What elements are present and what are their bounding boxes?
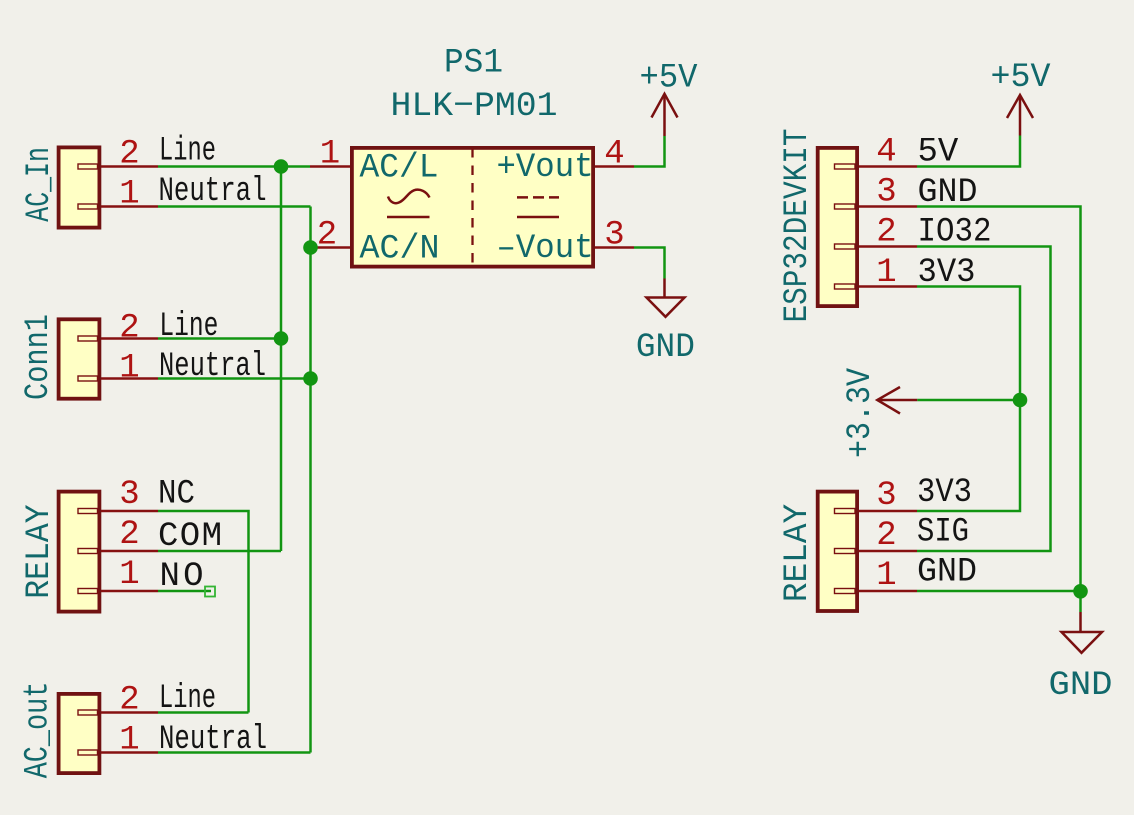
svg-text:PS1: PS1	[444, 45, 503, 83]
wire PS1 -Vout to GND	[634, 248, 665, 279]
AC_out pin 2	[101, 682, 158, 720]
svg-text:4: 4	[876, 134, 896, 172]
svg-text:Line: Line	[159, 308, 218, 346]
junction Conn1 line	[274, 331, 289, 346]
svg-text:NC: NC	[158, 476, 195, 514]
wire AC_In line to PS1	[158, 165, 310, 168]
svg-text:1: 1	[119, 556, 139, 594]
power symbol +5V (right)	[991, 59, 1052, 136]
svg-text:1: 1	[876, 254, 896, 292]
power supply module PS1 body	[352, 148, 593, 267]
svg-text:2: 2	[119, 136, 139, 174]
ESP32 pin 4	[859, 134, 917, 172]
connector Conn1 body	[59, 319, 100, 398]
svg-text:AC_In: AC_In	[21, 147, 59, 222]
svg-text:AC/N: AC/N	[360, 231, 440, 269]
Conn1 pin 2	[101, 310, 158, 348]
svg-text:GND: GND	[917, 554, 977, 592]
RELAY right pin 1	[859, 557, 917, 595]
svg-text:2: 2	[317, 217, 337, 255]
svg-text:HLK−PM01: HLK−PM01	[391, 88, 558, 126]
RELAY pin 2	[101, 516, 158, 554]
svg-text:+5V: +5V	[640, 60, 699, 98]
svg-text:1: 1	[119, 350, 139, 388]
AC_out pin 1	[101, 722, 158, 760]
svg-text:Neutral: Neutral	[159, 348, 266, 386]
svg-text:Line: Line	[159, 133, 216, 171]
wire Conn1 line	[158, 337, 281, 340]
power symbol +5V (PS1)	[640, 60, 699, 136]
wire relay GND to bus	[917, 590, 1081, 593]
svg-text:RELAY: RELAY	[779, 504, 817, 602]
svg-text:AC_out: AC_out	[20, 682, 58, 779]
wire +3.3V tap	[917, 399, 1020, 402]
svg-text:3V3: 3V3	[917, 474, 972, 512]
wire AC_out neutral	[158, 751, 311, 754]
power symbol GND (PS1)	[636, 279, 695, 367]
wire AC_out line	[158, 711, 249, 714]
wire ESP32 GND down	[917, 207, 1081, 613]
RELAY pin 3	[101, 476, 158, 514]
junction GND at relay	[1073, 584, 1088, 599]
wire line vertical bus	[280, 167, 283, 552]
AC_In pin 1	[101, 176, 158, 214]
junction Conn1 neutral	[303, 371, 318, 386]
wire RELAY NO dangling	[158, 587, 215, 597]
svg-text:–Vout: –Vout	[497, 230, 594, 268]
svg-text:1: 1	[876, 557, 896, 595]
svg-text:+3.3V: +3.3V	[842, 367, 880, 458]
connector ESP32DEVKIT body	[818, 148, 857, 306]
power symbol GND (right)	[1049, 612, 1113, 705]
svg-text:1: 1	[119, 176, 139, 214]
svg-text:3: 3	[604, 217, 624, 255]
DC symbol	[517, 197, 559, 217]
wire ESP32 5V to +5V	[917, 136, 1020, 167]
ESP32 pin 3	[859, 174, 917, 212]
PS1 pin 1 AC/L	[310, 136, 439, 188]
svg-text:3: 3	[876, 477, 896, 515]
wire PS1 +Vout to +5V	[634, 136, 665, 167]
ESP32 pin 2	[859, 214, 917, 252]
svg-text:GND: GND	[1049, 667, 1113, 705]
wire AC_In neutral	[158, 205, 311, 208]
svg-text:2: 2	[119, 310, 139, 348]
RELAY pin 1	[101, 556, 158, 594]
connector AC_out body	[59, 694, 100, 773]
wire RELAY COM	[158, 550, 281, 553]
svg-text:ESP32DEVKIT: ESP32DEVKIT	[779, 129, 817, 323]
wire neutral vertical bus	[309, 207, 312, 753]
junction at AC_In line bus	[274, 159, 289, 174]
connector AC_In body	[59, 147, 100, 227]
RELAY right pin 2	[859, 517, 917, 555]
junction 3V3 at +3.3V	[1013, 393, 1028, 408]
svg-text:2: 2	[876, 214, 896, 252]
svg-text:2: 2	[119, 682, 139, 720]
svg-text:AC/L: AC/L	[360, 150, 439, 188]
svg-text:3: 3	[876, 174, 896, 212]
svg-text:Conn1: Conn1	[20, 314, 58, 400]
wire ESP32 3V3 down	[917, 287, 1020, 512]
RELAY right pin 3	[859, 477, 917, 515]
svg-text:RELAY: RELAY	[21, 504, 59, 598]
svg-text:1: 1	[320, 136, 340, 174]
svg-text:4: 4	[604, 136, 624, 174]
AC sine symbol	[387, 190, 430, 217]
Conn1 pin 1	[101, 350, 158, 388]
AC_In pin 2	[101, 136, 158, 174]
svg-text:+5V: +5V	[991, 59, 1052, 97]
junction neutral to PS1 AC/N	[303, 240, 318, 255]
wire Conn1 neutral	[158, 377, 311, 380]
svg-text:2: 2	[119, 516, 139, 554]
wire ESP32 IO32 to relay SIG	[917, 247, 1051, 552]
wire RELAY NC	[158, 511, 249, 713]
PS1 pin 3 -Vout	[497, 217, 635, 268]
svg-text:1: 1	[119, 722, 139, 760]
svg-text:3: 3	[119, 476, 139, 514]
power symbol +3.3V	[842, 367, 917, 458]
ESP32 pin 1	[859, 254, 917, 292]
PS1 pin 4 +Vout	[497, 136, 635, 188]
PS1 pin 2 AC/N	[311, 217, 440, 269]
svg-text:GND: GND	[636, 329, 695, 367]
connector RELAY body (left)	[59, 492, 100, 612]
svg-text:+Vout: +Vout	[497, 149, 594, 187]
svg-text:SIG: SIG	[917, 514, 969, 552]
svg-text:2: 2	[876, 517, 896, 555]
connector RELAY body (right)	[818, 492, 857, 611]
